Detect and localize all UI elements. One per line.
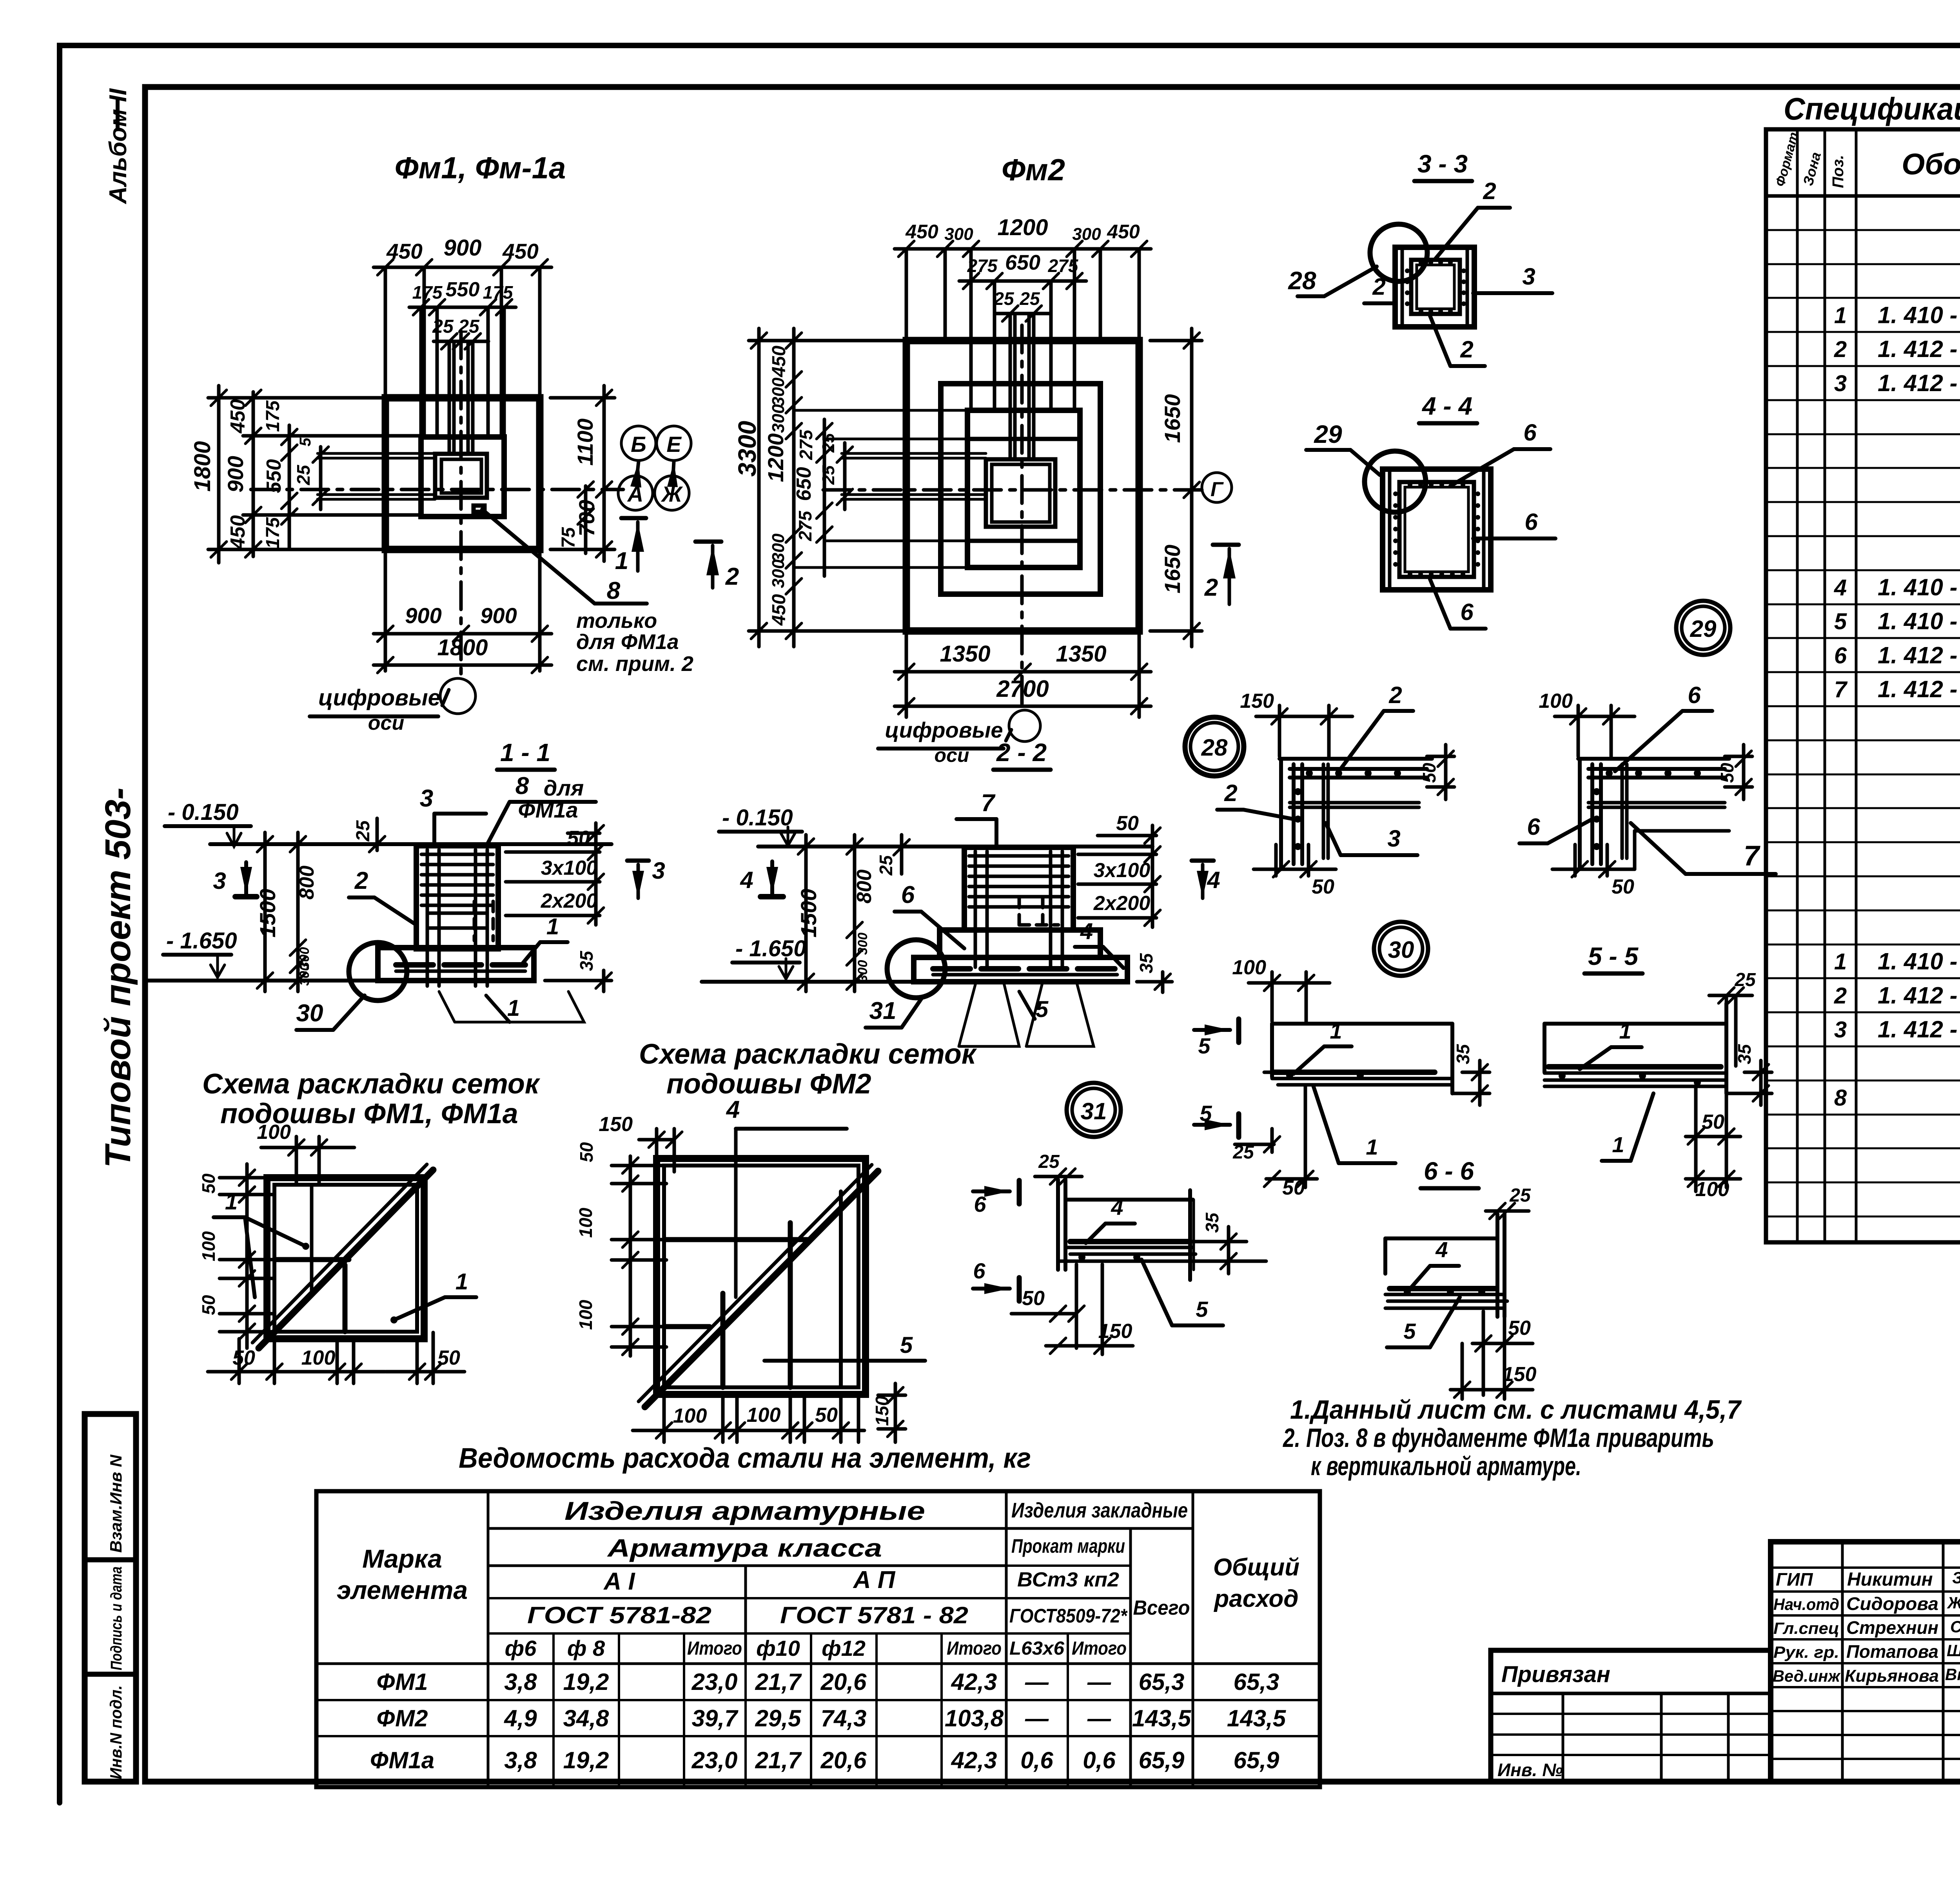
plan FM1 left dim chain 175 550 175 [288,425,291,549]
section 2-2 dim 25 [900,835,904,874]
svg-text:Итого: Итого [687,1638,742,1659]
section 1-1 dim 1500 [263,832,267,992]
section 1-1 bottom callout 1 [439,992,584,1022]
scheme 1 top dim 100 [295,1137,298,1184]
svg-text:29: 29 [1314,420,1342,448]
section 5-5 drawing [1544,1022,1726,1026]
svg-text:150: 150 [872,1396,892,1426]
svg-text:Всего: Всего [1133,1597,1190,1619]
section 2-2 pedestal step [940,930,1100,957]
svg-text:Никитин: Никитин [1847,1569,1933,1590]
detail 31 drawing top slab [1067,1198,1193,1202]
svg-text:300: 300 [769,559,788,588]
svg-text:100: 100 [673,1405,707,1427]
steel table header: Изделия арматурные [488,1527,1193,1530]
svg-text:29,5: 29,5 [755,1705,802,1731]
detail 30 circle standalone [1374,922,1428,976]
svg-text:6: 6 [973,1258,985,1283]
svg-text:25: 25 [353,820,374,842]
svg-text:элемента: элемента [337,1575,468,1604]
plan FM1 left dim 1800 [217,386,221,563]
svg-text:39,7: 39,7 [692,1705,739,1731]
section 1-1 column [416,846,498,949]
svg-text:900: 900 [480,603,517,628]
scheme 1 inner horizontal line [274,1257,349,1262]
svg-text:300: 300 [769,404,788,433]
svg-text:50: 50 [1022,1287,1045,1310]
svg-text:35: 35 [1453,1044,1473,1064]
svg-text:35: 35 [1136,953,1156,973]
spec table outer box [1766,129,1960,1242]
svg-text:Инв.N подл.: Инв.N подл. [107,1685,125,1779]
svg-text:65,9: 65,9 [1234,1747,1279,1773]
svg-text:5: 5 [1403,1319,1416,1343]
svg-text:4: 4 [1834,575,1847,600]
svg-text:Су: Су [1950,1617,1960,1636]
section 1-1 footing slab [378,948,534,981]
svg-text:175: 175 [483,282,514,303]
svg-text:3: 3 [1387,825,1400,852]
section 2-2 dim 800/300 stack [853,835,857,992]
svg-text:50: 50 [815,1404,838,1427]
detail 30 dim 25 bottom left [1235,1143,1274,1146]
svg-text:Марка: Марка [362,1544,442,1573]
svg-text:Подпись и дата: Подпись и дата [108,1566,125,1670]
svg-text:50: 50 [437,1347,460,1369]
svg-text:6: 6 [1688,682,1701,708]
scheme 2 inner lines [664,1237,808,1242]
svg-text:Типовой проект 503-: Типовой проект 503- [98,788,138,1168]
svg-text:50: 50 [1612,876,1634,898]
svg-text:2: 2 [1204,574,1218,601]
detail 28 dim 50 bottom [1274,845,1278,876]
svg-text:1. 412 - 1/77 вып. 3: 1. 412 - 1/77 вып. 3 [1878,370,1960,396]
svg-text:450: 450 [769,346,789,377]
svg-text:50: 50 [1508,1317,1531,1340]
svg-text:0,6: 0,6 [1083,1747,1116,1773]
section 6-6 dim 50 bottom [1472,1342,1533,1345]
svg-text:450: 450 [502,239,539,263]
svg-text:275: 275 [795,510,815,541]
svg-text:1200: 1200 [997,215,1048,240]
svg-text:450: 450 [1107,221,1140,243]
detail circle on section 3-3 corner [1370,224,1427,281]
steel table: diameter sub-headers [316,1662,1320,1665]
svg-text:3: 3 [1522,263,1535,290]
svg-text:4: 4 [1435,1237,1448,1262]
svg-text:3: 3 [420,785,433,812]
svg-text:25: 25 [432,316,454,337]
svg-text:1. 412 - 1/77 вып. 3: 1. 412 - 1/77 вып. 3 [1878,982,1960,1008]
svg-text:30: 30 [296,1000,323,1027]
svg-text:1: 1 [1612,1132,1624,1157]
plan FM1 top dim chain 450 900 450 [384,267,387,398]
svg-text:1: 1 [225,1189,238,1215]
plan FM1 dim chain 175 550 175 [419,307,423,437]
svg-text:0,6: 0,6 [1020,1747,1053,1773]
svg-text:2х200: 2х200 [541,890,598,912]
section 4-4 inner mesh rect [1399,482,1474,577]
scheme 1 bottom dims 50 100 50 [238,1339,241,1383]
detail 28 vertical bar pair with dots [1292,764,1296,864]
svg-text:50: 50 [1282,1177,1305,1199]
section 2-2 column [964,847,1073,930]
detail 30 drawing (slab edge, plan FM1 sole) [1272,1022,1452,1026]
svg-text:550: 550 [446,278,480,301]
svg-text:1. 412 - 1/77 вып. 3: 1. 412 - 1/77 вып. 3 [1878,1016,1960,1042]
section 6-6 drawing [1383,1238,1387,1274]
plan FM1 middle square [421,437,504,517]
detail 29 step corner line [1635,829,1729,833]
svg-text:—: — [1025,1705,1049,1731]
svg-text:Фм1, Фм-1а: Фм1, Фм-1а [395,150,566,185]
svg-text:25: 25 [819,433,838,453]
svg-text:2700: 2700 [996,676,1049,702]
plan FM2 dim chain 275 650 275 [993,281,996,410]
scheme 2 diagonal [645,1171,878,1407]
svg-text:4: 4 [726,1096,740,1123]
svg-text:Рук. гр.: Рук. гр. [1773,1643,1839,1661]
svg-text:к вертикальной арматуре.: к вертикальной арматуре. [1311,1451,1581,1481]
svg-text:900: 900 [223,456,248,492]
section 1-1 dim 800/300x2 [296,832,300,992]
scheme 1 inner vertical line [343,1265,348,1332]
plan FM1 bottom dim 900 900 [384,549,387,671]
section 5-5 dim 35 right [1744,1071,1772,1074]
svg-text:4: 4 [1080,919,1093,944]
svg-text:2: 2 [1834,983,1847,1008]
svg-text:4: 4 [1207,867,1220,893]
svg-text:25: 25 [1509,1185,1531,1206]
section 6-6 dim 150 bottom [1450,1388,1533,1392]
plan FM2 third rect [967,410,1080,567]
scheme 2 top dim 150 [639,1138,674,1142]
svg-text:А I: А I [603,1568,635,1595]
svg-text:оси: оси [935,744,969,766]
svg-text:1650: 1650 [1160,394,1185,443]
svg-text:- 0.150: - 0.150 [168,799,239,825]
svg-text:1. 410 - 2 вып. 1: 1. 410 - 2 вып. 1 [1878,302,1960,328]
svg-text:42,3: 42,3 [951,1669,997,1695]
svg-text:100: 100 [1232,956,1266,979]
plan FM2 inner double square [986,459,1055,527]
detail 29 dim 100 top [1577,705,1580,756]
section 6-6 slab mesh [1390,1286,1495,1291]
svg-text:300: 300 [855,960,870,983]
svg-text:4: 4 [1111,1195,1123,1220]
plan FM2 left dim 3300 [757,328,761,647]
svg-text:2: 2 [1834,337,1847,362]
detail circle 31 standalone [1067,1083,1121,1137]
section 5-5 dim 50 bottom [1686,1135,1740,1138]
detail 28 vertical edge line [1279,759,1283,869]
svg-text:Зап: Зап [1952,1568,1960,1587]
scheme 1 internal vertical line [310,1185,314,1293]
svg-text:175: 175 [412,282,443,303]
detail 29 dim 50 right [1725,755,1752,758]
axis circles A Zh [618,476,653,510]
scheme 1 diagonal [259,1170,433,1348]
section 2-2 right dims 50 3x100 2x200 4 [1098,834,1156,838]
svg-text:25: 25 [1038,1151,1060,1172]
steel table: Марка элемента cell [487,1491,490,1787]
svg-text:Вкир: Вкир [1945,1665,1960,1684]
svg-text:143,5: 143,5 [1132,1705,1192,1731]
plan FM1 axis circle (digit axes) [440,678,475,714]
detail 29 drawing: top edge line [1578,757,1729,761]
svg-text:5: 5 [1198,1033,1210,1058]
svg-text:2: 2 [354,867,368,894]
svg-text:100: 100 [301,1347,336,1369]
svg-text:20,6: 20,6 [820,1669,867,1695]
svg-text:50: 50 [1116,812,1139,835]
svg-text:ФМ1а: ФМ1а [370,1747,434,1773]
svg-text:6: 6 [901,881,915,908]
svg-text:Обозначение: Обозначение [1902,148,1960,181]
svg-text:Нач.отд: Нач.отд [1773,1595,1839,1613]
svg-text:Вед.инж: Вед.инж [1773,1667,1841,1685]
svg-text:21,7: 21,7 [755,1669,802,1695]
svg-text:25: 25 [458,316,480,337]
svg-text:5: 5 [297,437,314,446]
svg-text:—: — [1087,1705,1111,1731]
svg-text:450: 450 [769,594,789,626]
detail circle on section 4-4 corner [1365,451,1426,512]
plan FM2 left chain 275 650 275 [823,419,826,576]
section 2-2 dashed mesh in column [1018,897,1021,927]
svg-text:275: 275 [796,429,816,460]
svg-text:Потапова: Потапова [1846,1641,1938,1662]
detail 31 dim 50 bottom [1011,1312,1074,1316]
svg-text:6: 6 [1834,643,1847,668]
svg-text:300: 300 [769,533,788,562]
svg-text:275: 275 [967,256,998,276]
svg-text:1: 1 [615,547,628,575]
svg-text:3,8: 3,8 [504,1747,537,1773]
svg-text:см. прим. 2: см. прим. 2 [576,652,693,676]
svg-text:35: 35 [576,950,597,971]
detail 29 vertical edge [1578,759,1582,869]
svg-text:Г: Г [1210,478,1224,501]
plan FM1 outer square [385,398,540,549]
svg-text:35: 35 [1202,1212,1222,1233]
svg-text:34,8: 34,8 [563,1705,609,1731]
svg-text:Схема раскладки сеток: Схема раскладки сеток [639,1039,977,1070]
svg-text:4,9: 4,9 [504,1705,537,1731]
svg-text:150: 150 [1503,1363,1537,1386]
svg-text:31: 31 [869,997,897,1024]
svg-text:1. 410 - 2 вып. 1: 1. 410 - 2 вып. 1 [1878,608,1960,634]
svg-text:100: 100 [575,1207,596,1238]
section 3-3 rebar dots [1419,260,1423,265]
spec table column lines [1796,129,1799,1242]
svg-text:450: 450 [227,399,249,434]
section 4-4 rebar dots [1408,482,1412,487]
detail 30 dim 100 top [1270,972,1274,1021]
svg-text:8: 8 [515,772,529,799]
svg-text:4: 4 [740,867,753,893]
plan FM2 left extensions [794,409,967,412]
detail circle 29 standalone [1676,601,1730,655]
svg-text:50: 50 [198,1173,219,1194]
section 4-4 outer rect [1383,469,1491,590]
svg-text:1800: 1800 [190,441,215,491]
svg-text:ФМ1: ФМ1 [377,1669,428,1695]
svg-text:—: — [1025,1669,1049,1695]
svg-text:ф 8: ф 8 [567,1636,605,1661]
axis circle G [1202,473,1232,502]
privyazan block box [1491,1650,1771,1782]
svg-text:450: 450 [227,515,249,550]
svg-text:2: 2 [1372,274,1385,300]
plan FM2 top dim chain 450 300 1200 300 450 [905,249,908,341]
plan FM1 inner double square [435,454,487,498]
svg-text:8: 8 [1834,1085,1847,1111]
privyazan grid rows [1491,1713,1771,1715]
svg-text:5: 5 [1196,1297,1208,1322]
svg-text:4 - 4: 4 - 4 [1421,392,1472,420]
leader 8 from plan FM1 [482,509,595,604]
svg-text:3 - 3: 3 - 3 [1417,150,1468,178]
privyazan grid columns [1562,1693,1564,1782]
section marker 2 (right) [695,540,721,544]
svg-text:- 0.150: - 0.150 [722,805,793,830]
svg-text:28: 28 [1201,734,1228,761]
svg-text:900: 900 [405,603,441,628]
svg-text:2: 2 [1388,682,1402,708]
plan FM2 left dim 25 25 pairs [843,443,847,509]
svg-text:800: 800 [853,870,876,904]
svg-text:175: 175 [263,517,283,549]
svg-text:2: 2 [1460,336,1473,363]
section marker 1 (below axis circles) [621,516,646,520]
svg-text:Привязан: Привязан [1501,1662,1610,1687]
section 2-2 dim 1500 [804,835,808,992]
scheme 1 mesh square [267,1178,424,1339]
section 3-3 inner mesh square [1411,260,1460,314]
svg-text:Сидорова: Сидорова [1846,1593,1938,1614]
svg-text:6: 6 [1527,814,1540,840]
svg-text:1. 410 - 2 вып. 1: 1. 410 - 2 вып. 1 [1878,574,1960,600]
svg-text:Фм2: Фм2 [1002,152,1065,187]
detail 30 slab mesh [1272,1070,1435,1075]
detail 29 vertical bar pair with dots [1590,764,1594,864]
section 2-2 bottom callouts 5 [959,982,1019,1046]
svg-text:6: 6 [1524,509,1538,535]
svg-text:25: 25 [819,465,838,485]
section 1-1 detail circle 30 [349,943,407,1001]
svg-text:Инв. №: Инв. № [1497,1760,1563,1780]
svg-text:1350: 1350 [1056,641,1106,667]
svg-text:50: 50 [232,1347,255,1369]
scheme 1 left dims 50 100 50 [220,1176,274,1180]
svg-text:300: 300 [944,225,973,244]
svg-text:5 - 5: 5 - 5 [1588,942,1639,970]
spec table row lines [1766,229,1856,231]
arrows from A to B and Zh to E [637,462,639,476]
svg-text:Поз.: Поз. [1829,155,1847,188]
svg-text:1650: 1650 [1160,545,1185,594]
svg-text:ф12: ф12 [822,1636,866,1661]
svg-text:300: 300 [855,933,870,955]
svg-text:ГИП: ГИП [1776,1569,1813,1590]
svg-text:ГОСТ 5781-82: ГОСТ 5781-82 [527,1602,711,1628]
plan FM1 right dim 75 [584,486,588,553]
svg-text:2х200: 2х200 [1093,892,1151,915]
scheme 2 bottom dims 100 100 50 150 [662,1394,666,1442]
svg-text:150: 150 [1240,690,1274,712]
svg-text:Арматура класса: Арматура класса [607,1534,882,1562]
svg-text:74,3: 74,3 [821,1705,867,1731]
svg-text:для: для [544,776,584,800]
svg-text:Изделия арматурные: Изделия арматурные [564,1496,925,1525]
svg-text:ф10: ф10 [756,1636,800,1661]
svg-text:650: 650 [1005,251,1040,274]
plan FM1 vertical axis dash-dot [459,331,463,678]
svg-text:8: 8 [607,577,621,604]
detail 29 inner vertical pair [1621,764,1624,858]
plan FM2 third rect inner horizontals [967,437,1080,441]
svg-text:Общий: Общий [1213,1554,1299,1581]
svg-text:1: 1 [1834,303,1847,328]
section 1-1 column ties grid [421,853,493,856]
svg-text:50: 50 [576,1142,597,1162]
plan FM2 vertical axis dash-dot [1020,325,1024,707]
svg-text:ф6: ф6 [505,1636,537,1661]
svg-text:1: 1 [1366,1135,1378,1159]
svg-text:3: 3 [1834,371,1847,396]
scheme 2 mesh square [657,1158,866,1394]
detail 28 drawing: top edge line [1279,757,1432,761]
section 5-5 dim 100 bottom [1686,1177,1740,1181]
title block signature columns [1841,1542,1844,1782]
svg-text:1: 1 [507,995,520,1021]
svg-text:5: 5 [900,1332,913,1358]
svg-text:2 - 2: 2 - 2 [996,738,1047,767]
svg-text:3х100: 3х100 [1094,859,1151,882]
svg-text:550: 550 [263,459,285,493]
svg-text:Б: Б [631,432,646,457]
svg-text:100: 100 [257,1121,291,1144]
svg-text:Взам.Инв N: Взам.Инв N [107,1454,125,1553]
svg-text:1: 1 [1834,949,1847,975]
svg-text:Шот: Шот [1947,1641,1960,1660]
detail 31 right edge verticals [1188,1190,1192,1280]
svg-text:1500: 1500 [796,889,821,938]
svg-text:6: 6 [1460,599,1474,625]
detail 29 second horizontal pair [1588,801,1725,805]
svg-text:2: 2 [1483,178,1496,204]
svg-text:50: 50 [567,827,590,850]
detail 31 slab mesh [1070,1239,1190,1244]
svg-text:Прокат марки: Прокат марки [1011,1535,1125,1557]
svg-text:25: 25 [1232,1142,1254,1163]
title block signature rows [1771,1566,1960,1569]
svg-text:1. 410 - 2 вып. 1: 1. 410 - 2 вып. 1 [1878,948,1960,975]
plan FM2 bottom dim 2700 [895,705,1151,708]
detail 28 inner vertical pair [1322,764,1325,858]
detail 31 dim 25 top [1035,1175,1082,1178]
spec table header row line [1766,194,1960,198]
svg-text:1500: 1500 [255,889,280,938]
svg-text:Итого: Итого [947,1638,1002,1659]
svg-text:3: 3 [1834,1017,1847,1042]
svg-text:1: 1 [1330,1019,1342,1043]
svg-text:650: 650 [793,467,815,501]
svg-text:3: 3 [213,868,226,894]
svg-text:1: 1 [546,914,559,939]
svg-text:6: 6 [1523,419,1537,446]
